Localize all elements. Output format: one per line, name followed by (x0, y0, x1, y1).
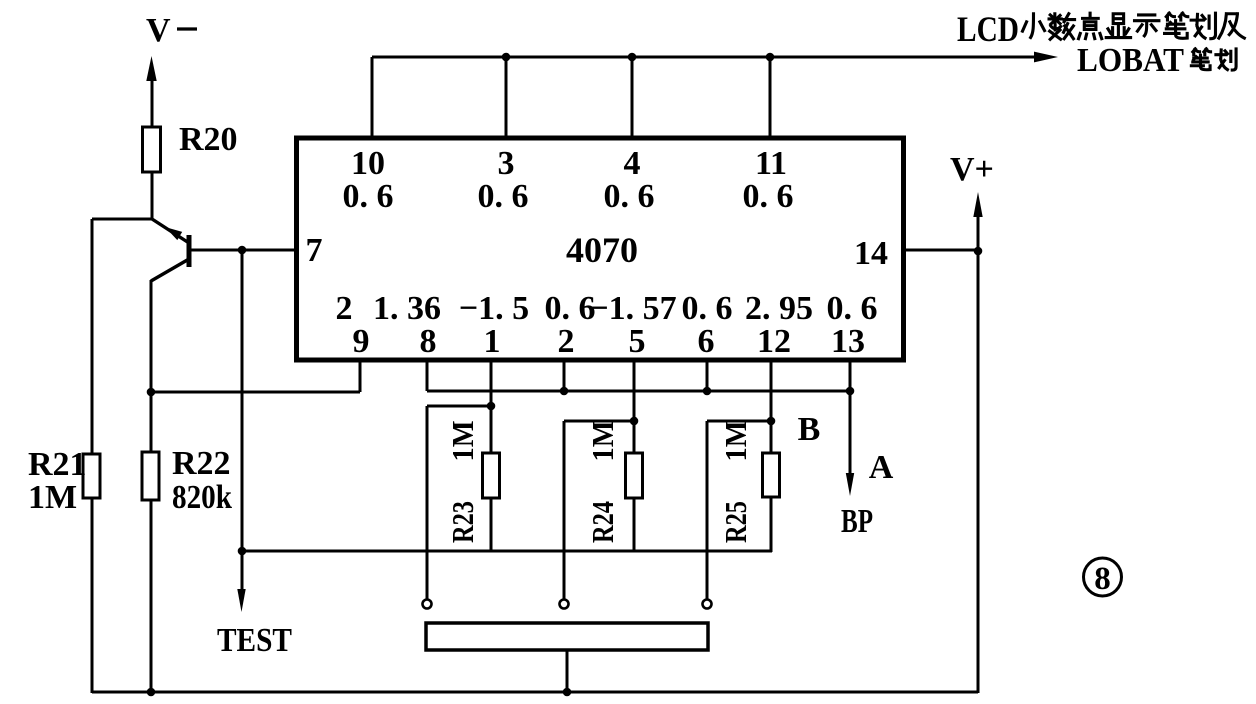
svg-text:8: 8 (420, 323, 437, 360)
svg-text:1M: 1M (28, 479, 77, 516)
svg-text:0. 6: 0. 6 (343, 178, 394, 215)
svg-text:0. 6: 0. 6 (604, 178, 655, 215)
svg-text:−1. 57: −1. 57 (589, 290, 676, 327)
svg-text:11: 11 (755, 145, 787, 182)
svg-text:B: B (798, 411, 821, 448)
svg-text:R22: R22 (172, 445, 231, 482)
svg-text:8: 8 (1094, 561, 1111, 597)
svg-text:6: 6 (698, 323, 715, 360)
svg-text:R21: R21 (28, 446, 87, 483)
svg-text:4: 4 (624, 145, 641, 182)
svg-text:2. 95: 2. 95 (745, 290, 813, 327)
svg-text:10: 10 (351, 145, 385, 182)
svg-text:R25: R25 (718, 501, 753, 543)
svg-text:1M: 1M (585, 421, 620, 462)
svg-text:5: 5 (629, 323, 646, 360)
svg-text:1M: 1M (445, 421, 480, 462)
svg-text:3: 3 (498, 145, 515, 182)
svg-text:BP: BP (841, 503, 873, 540)
svg-text:14: 14 (854, 235, 888, 272)
svg-text:R24: R24 (585, 501, 620, 543)
svg-text:−1. 5: −1. 5 (459, 290, 529, 327)
svg-text:2: 2 (558, 323, 575, 360)
svg-text:0. 6: 0. 6 (827, 290, 878, 327)
svg-text:1: 1 (484, 323, 501, 360)
svg-text:1. 36: 1. 36 (373, 290, 441, 327)
svg-text:R23: R23 (445, 501, 480, 543)
svg-text:A: A (869, 449, 894, 486)
svg-text:12: 12 (757, 323, 791, 360)
svg-text:820k: 820k (172, 479, 232, 516)
svg-text:0. 6: 0. 6 (743, 178, 794, 215)
svg-text:V: V (146, 12, 171, 49)
svg-text:0. 6: 0. 6 (545, 290, 596, 327)
svg-text:0. 6: 0. 6 (478, 178, 529, 215)
svg-text:V+: V+ (950, 151, 994, 188)
svg-text:1M: 1M (718, 421, 753, 462)
svg-text:LOBAT: LOBAT (1077, 42, 1184, 79)
svg-text:2: 2 (336, 290, 353, 327)
svg-text:9: 9 (353, 323, 370, 360)
svg-text:4070: 4070 (566, 230, 638, 270)
svg-text:7: 7 (306, 232, 323, 269)
svg-text:R20: R20 (179, 121, 238, 158)
svg-text:TEST: TEST (217, 622, 292, 659)
svg-text:13: 13 (831, 323, 865, 360)
svg-text:0. 6: 0. 6 (682, 290, 733, 327)
svg-text:LCD: LCD (957, 9, 1019, 49)
